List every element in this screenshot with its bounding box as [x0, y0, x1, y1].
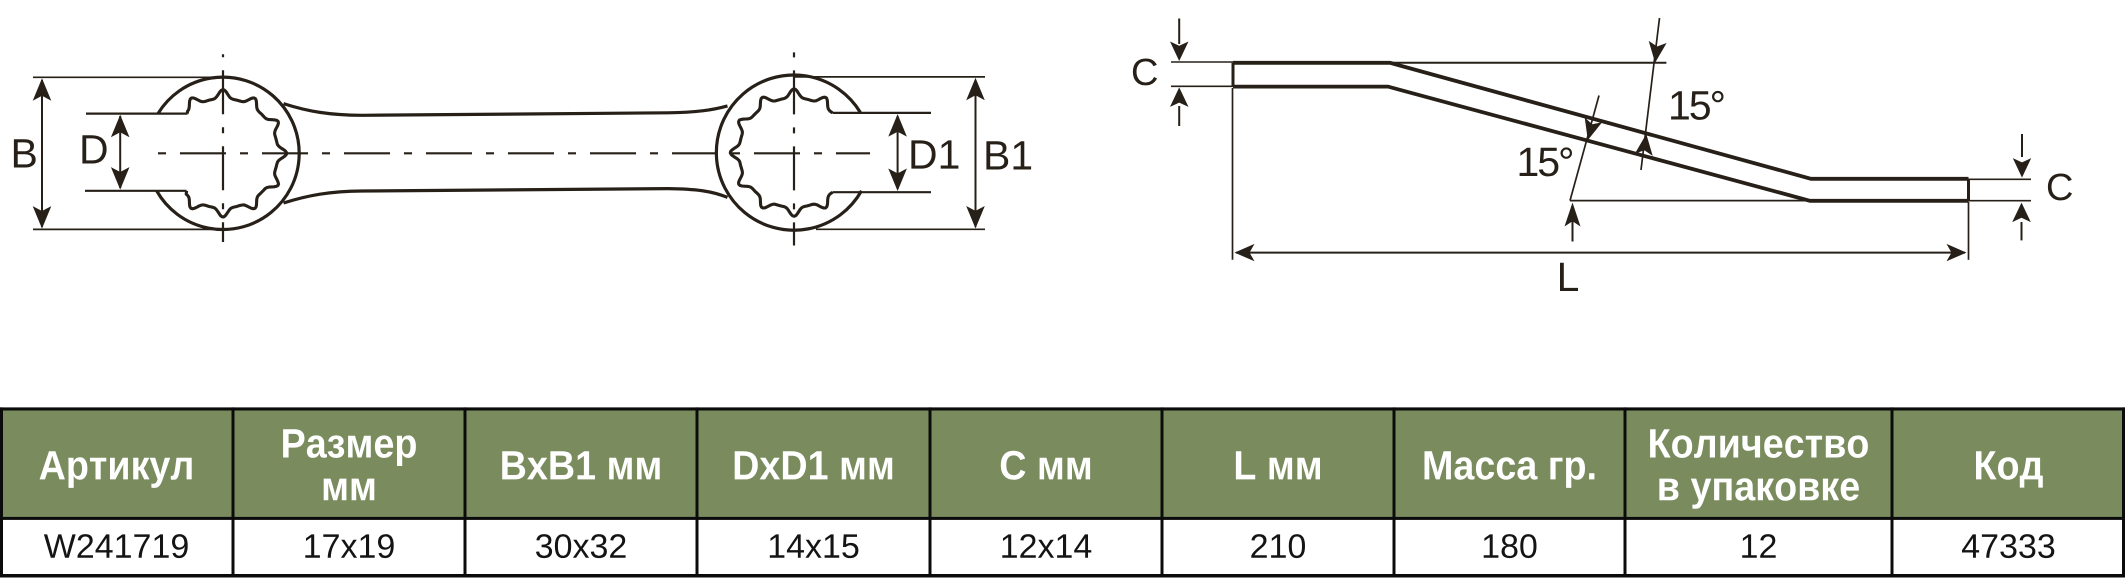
table header: С мм [1001, 451, 1090, 480]
horizontal centerline axis [158, 152, 870, 154]
table data: 47333 [1962, 534, 2054, 558]
dimension B top extension line [33, 76, 224, 78]
table data: 210 [1251, 534, 1305, 558]
dimension B1 arrow [975, 80, 977, 227]
table data: W241719 [44, 534, 188, 558]
table header: ВхВ1 мм [502, 451, 660, 479]
top edge thin extension line [1390, 62, 1666, 64]
dimension C right: tick lines [1966, 178, 2031, 180]
side view: right end edge [1967, 179, 1970, 201]
horizontal reference line [1570, 200, 1813, 202]
label B [14, 139, 36, 167]
dimension L: right extension line [1968, 202, 1970, 260]
table header: Количество в упаковке [1650, 429, 1868, 458]
table data: 14х15 [770, 534, 859, 558]
label B1 [986, 141, 1031, 169]
table bottom border [0, 574, 2125, 578]
dimension L: left extension line [1232, 88, 1234, 260]
dimension C left: arrows [1178, 19, 1180, 45]
shank bottom edge [284, 189, 728, 203]
table data: 30х32 [536, 534, 626, 558]
table header: Артикул [40, 451, 192, 488]
right head vertical centerline [793, 52, 795, 245]
dimension B bottom extension line [33, 228, 224, 230]
table data: 17х19 [305, 534, 393, 558]
side view: bottom edge [1233, 87, 1969, 201]
table data: 12х14 [1002, 534, 1091, 558]
label L [1560, 263, 1578, 291]
table data: 12 [1742, 534, 1776, 558]
label D [82, 135, 106, 163]
label C left [1133, 59, 1157, 86]
table top border [0, 407, 2125, 410]
dimension B arrow [41, 80, 43, 227]
label 15deg lower [1520, 147, 1572, 176]
table vertical borders [0, 407, 3, 577]
table header: Размер мм [283, 429, 416, 466]
small up arrow at reference line [1572, 221, 1574, 242]
table header: DxD1 мм [735, 451, 893, 479]
table header: Масса гр. [1425, 451, 1595, 488]
right ring head outer circle [716, 75, 861, 230]
label 15deg upper [1671, 91, 1723, 120]
shank top edge [284, 104, 728, 116]
dimension B1 bottom extension line [816, 228, 985, 230]
left ring head 12-point profile [186, 90, 286, 217]
dimension L arrow line [1236, 252, 1965, 254]
table header background [0, 409, 2125, 517]
lower 15deg slant dimension line [1570, 96, 1599, 201]
dimension B1 top extension line [795, 76, 985, 78]
slot line D top [86, 112, 188, 114]
slot line D1 bottom [833, 191, 932, 193]
left head vertical centerline [222, 54, 224, 242]
label D1 [911, 140, 958, 168]
dimension D arrow [119, 116, 121, 188]
label C right [2048, 174, 2072, 201]
dimension C right: arrows [2021, 134, 2023, 157]
left ring head outer circle [157, 77, 300, 229]
table data: 180 [1484, 534, 1537, 558]
side view: left end edge [1232, 63, 1235, 87]
table header: L мм [1236, 451, 1320, 479]
upper 15deg slant dimension line [1641, 18, 1660, 170]
side view: top edge [1233, 63, 1969, 179]
dimension D1 arrow [897, 116, 899, 189]
slot line D1 top [833, 112, 932, 114]
table header: Код [1976, 451, 2043, 487]
table header/data divider [0, 517, 2125, 520]
right ring head 12-point profile [730, 89, 832, 216]
slot line D bottom [85, 190, 187, 192]
dimension C left: tick lines [1171, 61, 1237, 63]
